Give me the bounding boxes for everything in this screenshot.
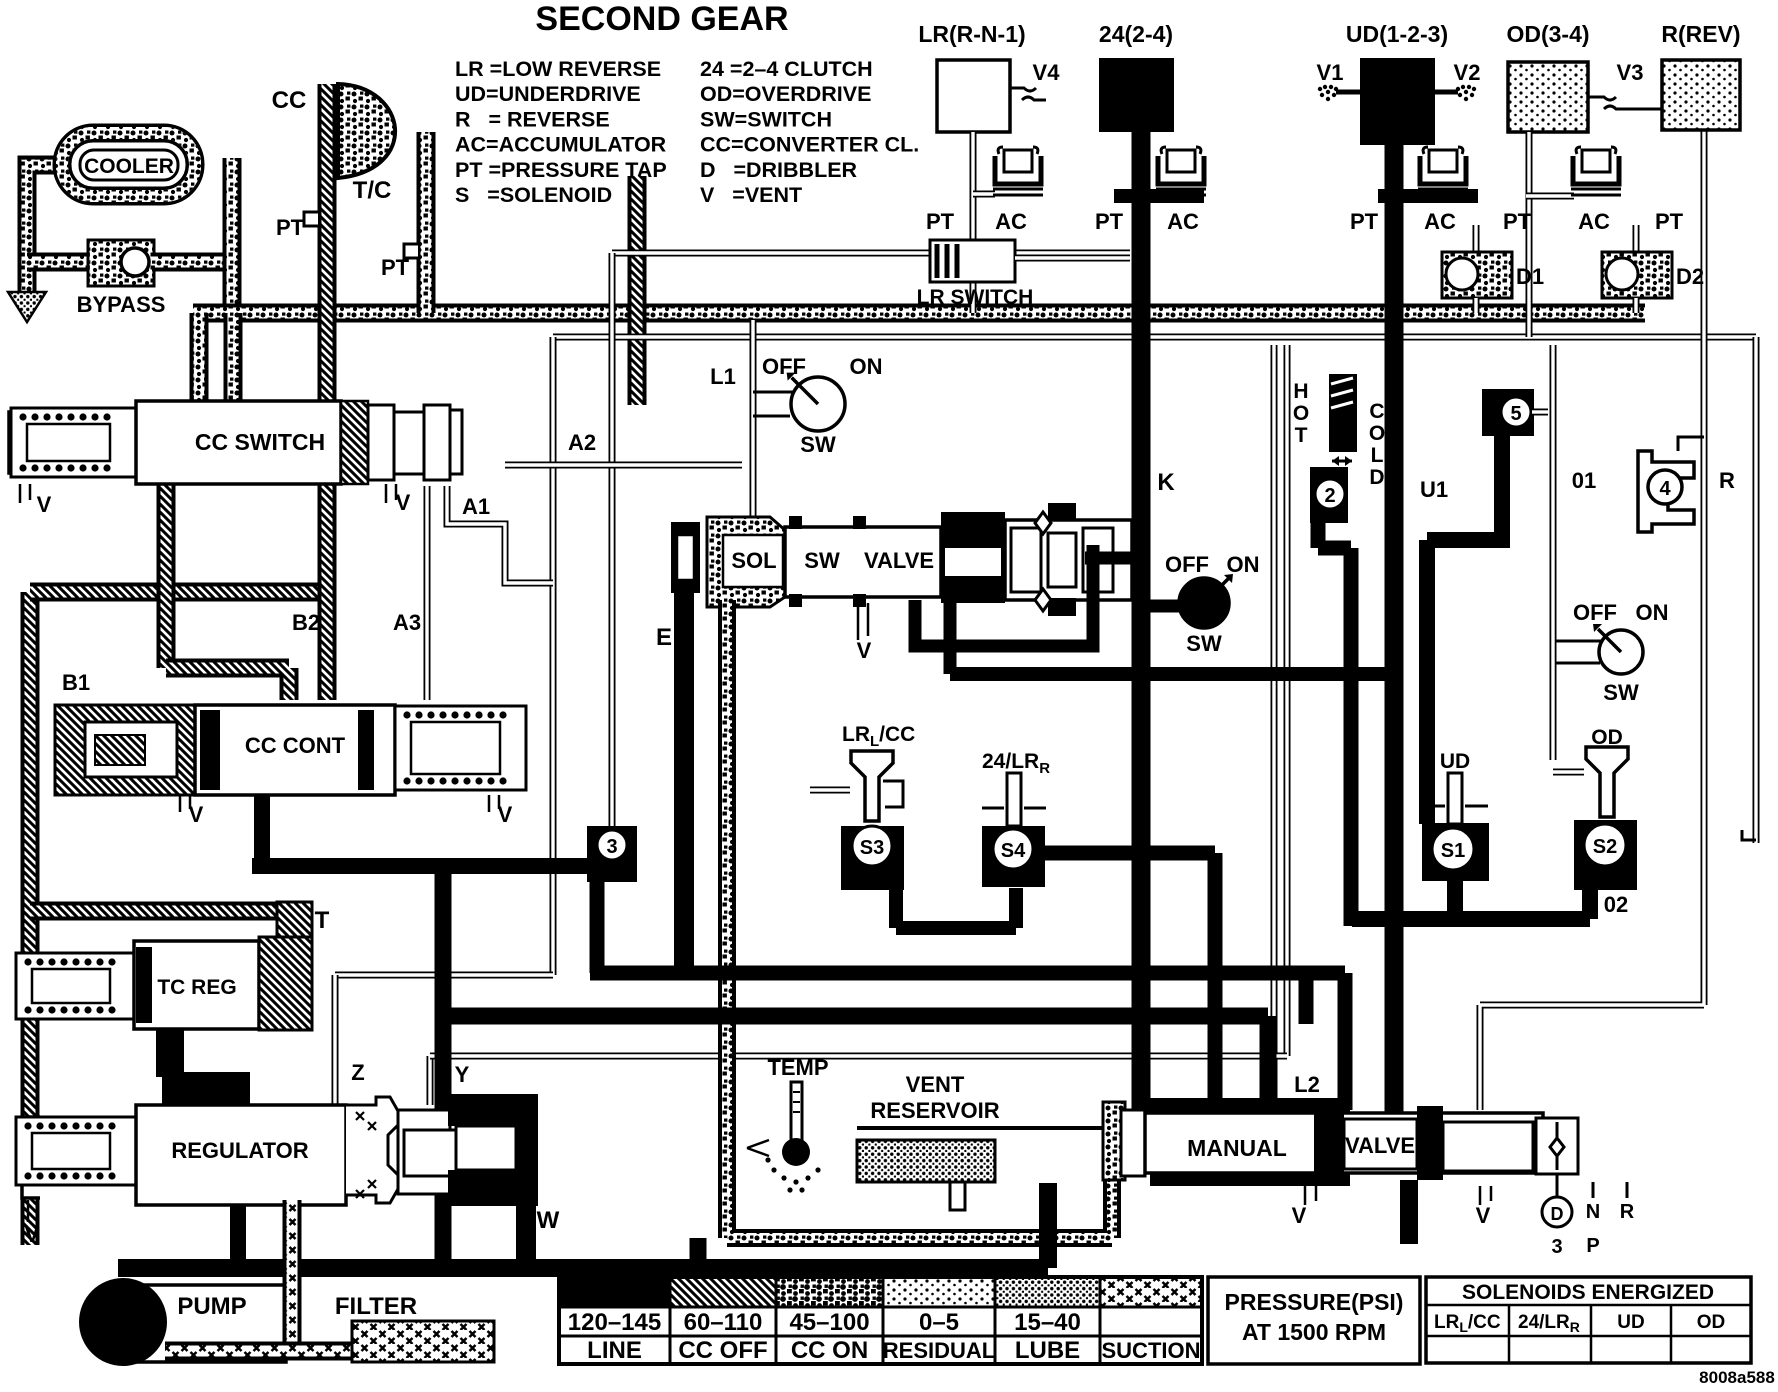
node 5 block bbox=[1482, 389, 1534, 436]
thermal element bbox=[1329, 374, 1357, 452]
valve MANUAL black section left of VALVE bbox=[1314, 1106, 1344, 1180]
svg-text:4: 4 bbox=[1659, 478, 1671, 500]
svg-text:Z: Z bbox=[351, 1060, 364, 1085]
valve REGULATOR black end bbox=[448, 1094, 536, 1126]
svg-text:LR SWITCH: LR SWITCH bbox=[917, 286, 1034, 309]
valve CC CONT spring box bbox=[395, 706, 526, 790]
svg-text:V: V bbox=[37, 492, 52, 517]
solenoid S4 bbox=[982, 826, 1045, 887]
legend swatch RESIDUAL bbox=[883, 1277, 995, 1307]
svg-text:C: C bbox=[1369, 400, 1384, 423]
svg-text:LRL/CC: LRL/CC bbox=[842, 723, 915, 750]
valve MANUAL end detent box bbox=[1536, 1118, 1578, 1174]
legend swatch LUBE bbox=[995, 1277, 1100, 1307]
svg-text:V: V bbox=[857, 638, 872, 663]
svg-text:15–40: 15–40 bbox=[1014, 1309, 1081, 1336]
svg-text:OD(3-4): OD(3-4) bbox=[1506, 21, 1589, 47]
wire S1 stem bbox=[1447, 877, 1463, 919]
wire 24 clutch feed vertical bbox=[1132, 130, 1151, 1113]
pressure tap PT on T/C line bbox=[404, 244, 418, 258]
valve body divider tabs bbox=[789, 516, 802, 529]
legend swatch CC ON bbox=[776, 1277, 883, 1307]
svg-text:OFF: OFF bbox=[762, 354, 806, 379]
svg-text:UD: UD bbox=[1440, 750, 1470, 773]
legend pressure table bbox=[559, 1277, 1202, 1364]
valve REGULATOR spool bbox=[398, 1110, 450, 1194]
vent V below MANUAL bbox=[1305, 1186, 1316, 1205]
svg-text:D: D bbox=[1369, 466, 1384, 489]
selector ticks N P R bbox=[1593, 1182, 1627, 1198]
wire vertical line x=553 bbox=[550, 337, 557, 975]
wire vent reservoir channel (stipple) bbox=[727, 600, 1112, 1238]
wire vent channel stub bbox=[690, 1238, 707, 1262]
svg-text:PT: PT bbox=[1095, 209, 1124, 234]
wire cooler loop into CC SWITCH right bbox=[224, 313, 243, 425]
svg-text:TEMP: TEMP bbox=[767, 1055, 828, 1080]
svg-text:V: V bbox=[25, 1222, 40, 1247]
wire TC REG link down bbox=[156, 1003, 184, 1077]
valve TC REG body bbox=[134, 941, 259, 1029]
solenoid switch valve stipple housing bbox=[707, 517, 785, 607]
valve CC CONT body bbox=[195, 705, 395, 795]
svg-text:D: D bbox=[1551, 1204, 1564, 1224]
wire W line bbox=[516, 1202, 536, 1262]
svg-text:REGULATOR: REGULATOR bbox=[171, 1138, 308, 1163]
valve MANUAL left cap bbox=[1121, 1110, 1145, 1176]
node 3 block bbox=[587, 826, 637, 882]
svg-text:D =DRIBBLER: D =DRIBBLER bbox=[700, 158, 858, 182]
svg-text:V: V bbox=[498, 802, 513, 827]
valve REGULATOR x-section bbox=[346, 1097, 398, 1203]
svg-text:AT 1500 RPM: AT 1500 RPM bbox=[1242, 1319, 1386, 1345]
wire B1 hatched far-left vertical bbox=[21, 911, 40, 1245]
valve MANUAL top black bar bbox=[1150, 1098, 1350, 1114]
svg-text:BYPASS: BYPASS bbox=[77, 292, 166, 317]
svg-text:PT: PT bbox=[276, 215, 305, 240]
valve MANUAL black section right of VALVE bbox=[1417, 1106, 1443, 1180]
wire cooler loop into CC SWITCH left bbox=[190, 313, 209, 425]
wire regulator feed bbox=[230, 1198, 246, 1268]
wire A2 line bbox=[505, 462, 742, 469]
svg-text:3: 3 bbox=[1551, 1236, 1562, 1258]
svg-text:VALVE: VALVE bbox=[1345, 1133, 1415, 1158]
svg-text:S4: S4 bbox=[1001, 840, 1026, 862]
svg-text:ON: ON bbox=[1227, 552, 1260, 577]
svg-text:VENT: VENT bbox=[906, 1072, 965, 1097]
vent V below CC SWITCH right bbox=[386, 484, 396, 503]
wire cooler to converter return vertical bbox=[223, 158, 242, 313]
svg-text:5: 5 bbox=[1510, 403, 1521, 425]
wire T/C charge (hatched) bbox=[628, 176, 647, 405]
svg-text:02: 02 bbox=[1604, 892, 1628, 917]
wire bypass to cooler return bbox=[152, 253, 232, 272]
svg-text:V =VENT: V =VENT bbox=[700, 183, 802, 207]
svg-text:0–5: 0–5 bbox=[919, 1309, 959, 1336]
wire S2 stem bbox=[1582, 888, 1598, 919]
svg-text:ON: ON bbox=[1636, 600, 1669, 625]
wire 5 to 01 line bbox=[1532, 409, 1548, 416]
svg-text:U1: U1 bbox=[1420, 477, 1448, 502]
wire L2 pair vertical bbox=[1271, 345, 1278, 1105]
wire thermal valve to UD sol supply bbox=[1318, 520, 1351, 548]
wire LR switch sense line y=253 bbox=[612, 250, 1130, 257]
solenoids energized table bbox=[1426, 1277, 1751, 1363]
wire valve to switch run y=674 bbox=[950, 667, 1394, 681]
switch SW1 dial bbox=[753, 392, 793, 416]
wire CC CONT output bbox=[252, 795, 614, 866]
spool top and bottom tabs bbox=[1048, 503, 1076, 521]
vent V below CC CONT left bbox=[180, 795, 190, 812]
svg-text:H: H bbox=[1293, 380, 1308, 403]
vent V below CC CONT right bbox=[489, 795, 499, 812]
svg-text:8008a588: 8008a588 bbox=[1699, 1368, 1775, 1387]
wire S4 output to manual bbox=[1045, 853, 1215, 1108]
wire vertical line x=612 to solenoid 3 bbox=[609, 253, 616, 826]
wire suction pipe bbox=[283, 1200, 302, 1345]
arrow both ways bbox=[1332, 460, 1352, 463]
svg-text:UD=UNDERDRIVE: UD=UNDERDRIVE bbox=[455, 82, 641, 106]
svg-text:N: N bbox=[1586, 1201, 1600, 1223]
valve TC REG spring box bbox=[16, 953, 136, 1019]
wire valve loop U2 bbox=[944, 603, 957, 674]
valve CC SWITCH body bbox=[136, 401, 341, 484]
cooler COOLER bbox=[62, 133, 195, 196]
wire A1 line bbox=[447, 486, 553, 583]
valve MANUAL stipple inlet cap bbox=[1103, 1102, 1125, 1180]
wire R reverse line bbox=[1480, 130, 1704, 1110]
wire Z line bbox=[335, 972, 553, 979]
wire right edge line x=1756 bbox=[1753, 337, 1760, 843]
svg-text:R: R bbox=[1620, 1201, 1635, 1223]
svg-text:A2: A2 bbox=[568, 430, 596, 455]
svg-text:AC: AC bbox=[1578, 209, 1610, 234]
svg-text:A1: A1 bbox=[462, 494, 490, 519]
svg-text:V3: V3 bbox=[1617, 60, 1644, 85]
pump rotor bbox=[79, 1278, 167, 1366]
svg-text:01: 01 bbox=[1572, 468, 1596, 493]
svg-text:UD(1-2-3): UD(1-2-3) bbox=[1346, 21, 1448, 47]
filter element bbox=[352, 1321, 494, 1362]
pressure switch LR SWITCH bbox=[930, 240, 1015, 282]
svg-text:D1: D1 bbox=[1516, 264, 1544, 289]
accumulator AC under UD bbox=[1378, 189, 1478, 203]
valve CC SWITCH hatched land bbox=[341, 401, 368, 484]
legend swatch CC OFF bbox=[670, 1277, 776, 1307]
solenoid switch valve spool section bbox=[1005, 520, 1132, 600]
svg-text:RESIDUAL: RESIDUAL bbox=[883, 1338, 995, 1363]
accumulator AC under LR bbox=[973, 191, 995, 198]
svg-text:VALVE: VALVE bbox=[864, 548, 934, 573]
svg-text:V: V bbox=[396, 490, 411, 515]
svg-text:R: R bbox=[1719, 468, 1735, 493]
legend swatch SUCTION bbox=[1100, 1277, 1202, 1307]
svg-text:E: E bbox=[656, 624, 672, 651]
svg-text:Y: Y bbox=[455, 1062, 470, 1087]
detent D marker bbox=[1556, 1174, 1559, 1196]
wire hatched elbow to CC CONT bbox=[166, 668, 289, 700]
pressure tap PT on CC line bbox=[304, 212, 318, 226]
pump body bbox=[121, 1285, 286, 1362]
valve REGULATOR spring box bbox=[16, 1117, 136, 1185]
svg-text:T: T bbox=[315, 907, 330, 934]
valve CC CONT black land left bbox=[200, 710, 220, 790]
svg-text:B2: B2 bbox=[292, 610, 320, 635]
svg-text:SW=SWITCH: SW=SWITCH bbox=[700, 107, 832, 131]
svg-text:V: V bbox=[1476, 1203, 1491, 1228]
wire TC REG hatched feed bbox=[30, 902, 300, 921]
svg-text:OFF: OFF bbox=[1573, 600, 1617, 625]
svg-text:S3: S3 bbox=[860, 837, 884, 859]
svg-text:S1: S1 bbox=[1441, 840, 1465, 862]
svg-text:L: L bbox=[1371, 444, 1384, 467]
solenoid switch valve black section bbox=[941, 512, 1005, 603]
solenoid switch valve body SW VALVE bbox=[785, 527, 941, 597]
bypass valve body bbox=[88, 240, 154, 286]
valve MANUAL body bbox=[1145, 1113, 1543, 1173]
svg-text:T: T bbox=[1295, 424, 1308, 447]
svg-text:CC: CC bbox=[272, 87, 307, 114]
wire A3 line bbox=[424, 486, 431, 700]
svg-text:COOLER: COOLER bbox=[84, 155, 174, 178]
svg-text:PT: PT bbox=[1350, 209, 1379, 234]
bypass ball bbox=[121, 248, 149, 276]
wire valve loop U1 bbox=[915, 545, 1093, 646]
switch SW2 dial (closed) bbox=[1179, 578, 1229, 628]
svg-text:FILTER: FILTER bbox=[335, 1293, 417, 1320]
node 2 block bbox=[1310, 467, 1348, 523]
valve CC SWITCH left end cap bbox=[9, 412, 34, 473]
valve CC SWITCH right end A1 port bbox=[450, 410, 462, 474]
node 4 retainer bbox=[1678, 437, 1704, 451]
wire B1 hatched horizontal bbox=[30, 583, 327, 602]
svg-text:V: V bbox=[1292, 1203, 1307, 1228]
wire UD clutch feed vertical bbox=[1385, 130, 1404, 1113]
hook end of x=1756 line bbox=[1742, 830, 1756, 840]
accumulator AC under OD bbox=[1526, 193, 1574, 200]
svg-text:SW: SW bbox=[800, 432, 836, 457]
svg-text:SOL: SOL bbox=[731, 548, 776, 573]
svg-text:SECOND GEAR: SECOND GEAR bbox=[535, 0, 788, 38]
svg-text:V2: V2 bbox=[1454, 60, 1481, 85]
svg-text:LR(R-N-1): LR(R-N-1) bbox=[918, 21, 1025, 47]
dribbler D2 bbox=[1602, 252, 1672, 298]
svg-text:LUBE: LUBE bbox=[1015, 1337, 1080, 1364]
vent V below left cap bbox=[20, 484, 30, 503]
svg-text:R(REV): R(REV) bbox=[1661, 21, 1740, 47]
svg-text:LR =LOW REVERSE: LR =LOW REVERSE bbox=[455, 57, 661, 81]
wire run2 solenoid feed bbox=[590, 878, 1345, 1110]
wire D1 feed bbox=[1473, 225, 1480, 252]
svg-text:OFF: OFF bbox=[1165, 552, 1209, 577]
solenoid S1 bbox=[1422, 823, 1489, 881]
valve REGULATOR body bbox=[136, 1105, 346, 1205]
svg-text:60–110: 60–110 bbox=[684, 1309, 763, 1336]
svg-text:V4: V4 bbox=[1033, 60, 1061, 85]
svg-text:CC OFF: CC OFF bbox=[678, 1337, 767, 1364]
valve CC SWITCH spring box bbox=[11, 408, 136, 477]
wire L1 drop bbox=[750, 320, 757, 560]
wire E line bbox=[674, 593, 694, 966]
svg-text:PRESSURE(PSI): PRESSURE(PSI) bbox=[1225, 1289, 1404, 1315]
wire run3 pump to manual bbox=[443, 1016, 1268, 1110]
svg-text:O: O bbox=[1293, 402, 1309, 425]
wire UD solenoid supply vertical bbox=[1344, 548, 1359, 926]
svg-text:AC=ACCUMULATOR: AC=ACCUMULATOR bbox=[455, 133, 667, 157]
svg-text:CC SWITCH: CC SWITCH bbox=[195, 429, 325, 455]
svg-text:P: P bbox=[1586, 1235, 1599, 1257]
svg-text:CC ON: CC ON bbox=[791, 1337, 868, 1364]
wire bypass branch bbox=[27, 253, 90, 272]
wire main feed vertical x=443 bbox=[435, 866, 452, 1268]
svg-text:LRL/CC: LRL/CC bbox=[1434, 1312, 1501, 1335]
solenoid switch valve left cap E bbox=[671, 522, 700, 593]
svg-text:SW: SW bbox=[1603, 680, 1639, 705]
svg-text:OD: OD bbox=[1697, 1312, 1726, 1333]
wire S3 S4 connector run1 bbox=[896, 885, 1016, 928]
legend swatch LINE bbox=[559, 1277, 670, 1307]
wire hatched CC SWITCH drop 1 bbox=[157, 480, 176, 668]
svg-text:S2: S2 bbox=[1593, 836, 1617, 858]
svg-text:V: V bbox=[189, 802, 204, 827]
svg-text:SW: SW bbox=[804, 548, 840, 573]
svg-text:3: 3 bbox=[606, 836, 617, 858]
svg-text:SW: SW bbox=[1186, 631, 1222, 656]
wire B2 hatched line bbox=[318, 480, 337, 700]
svg-text:R = REVERSE: R = REVERSE bbox=[455, 107, 610, 131]
arrow cooler discharge bbox=[8, 292, 46, 322]
legend text column 1 bbox=[455, 57, 667, 207]
svg-text:L1: L1 bbox=[710, 364, 736, 389]
svg-text:V1: V1 bbox=[1317, 60, 1344, 85]
legend text column 2 bbox=[700, 57, 919, 207]
wire valve right to 24 line bbox=[1085, 552, 1141, 565]
valve CC CONT left hatched box bbox=[55, 705, 195, 795]
svg-text:AC: AC bbox=[995, 209, 1027, 234]
torque converter T/C dome bbox=[338, 84, 395, 178]
svg-text:W: W bbox=[537, 1207, 560, 1234]
svg-text:UD: UD bbox=[1617, 1312, 1644, 1333]
valve CC SWITCH spool lands bbox=[368, 405, 394, 480]
wire LR stem bbox=[970, 132, 977, 242]
wire converter-out main stipple run bbox=[193, 304, 1645, 323]
svg-text:SUCTION: SUCTION bbox=[1102, 1338, 1201, 1363]
svg-text:24 =2–4 CLUTCH: 24 =2–4 CLUTCH bbox=[700, 57, 873, 81]
svg-text:B1: B1 bbox=[62, 670, 90, 695]
valve VALVE label box bbox=[1344, 1119, 1417, 1169]
wire 5 block leg bbox=[1427, 435, 1510, 824]
svg-text:LINE: LINE bbox=[587, 1337, 642, 1364]
wire drain below valve bbox=[1400, 1180, 1418, 1244]
wire into S3 funnel bbox=[810, 787, 850, 794]
svg-text:24(2-4): 24(2-4) bbox=[1099, 21, 1173, 47]
pressure note box bbox=[1208, 1277, 1420, 1364]
svg-text:ON: ON bbox=[850, 354, 883, 379]
solenoid S2 bbox=[1574, 820, 1637, 890]
wire CC apply (hatched) bbox=[318, 84, 337, 405]
check ball diamonds bbox=[1035, 512, 1051, 611]
svg-text:PUMP: PUMP bbox=[177, 1293, 246, 1320]
svg-text:45–100: 45–100 bbox=[789, 1309, 869, 1336]
svg-text:PT: PT bbox=[381, 255, 410, 280]
wire T/C right side drain bbox=[417, 132, 436, 313]
svg-text:TC REG: TC REG bbox=[157, 976, 236, 999]
svg-text:AC: AC bbox=[1167, 209, 1199, 234]
svg-text:RESERVOIR: RESERVOIR bbox=[870, 1098, 999, 1123]
wire cooler outlet left + arrow bbox=[27, 165, 62, 292]
svg-text:MANUAL: MANUAL bbox=[1187, 1135, 1287, 1161]
valve MANUAL right spool bbox=[1443, 1122, 1533, 1171]
accumulator AC under 24 bbox=[1114, 189, 1204, 203]
svg-text:S =SOLENOID: S =SOLENOID bbox=[455, 183, 612, 207]
solenoid S3 bbox=[841, 826, 904, 890]
wire D2 feed bbox=[1633, 225, 1640, 252]
svg-text:AC: AC bbox=[1424, 209, 1456, 234]
wire 01 line bbox=[1550, 345, 1557, 760]
svg-text:K: K bbox=[1157, 469, 1175, 496]
svg-text:PT: PT bbox=[926, 209, 955, 234]
svg-text:SOLENOIDS ENERGIZED: SOLENOIDS ENERGIZED bbox=[1462, 1281, 1714, 1304]
svg-text:T/C: T/C bbox=[353, 177, 392, 204]
wire S1 S2 collector bbox=[1352, 911, 1590, 927]
svg-text:120–145: 120–145 bbox=[568, 1309, 661, 1336]
wire torque signal line y=337 bbox=[553, 334, 1756, 341]
svg-text:O: O bbox=[1369, 422, 1385, 445]
svg-text:CC=CONVERTER CL.: CC=CONVERTER CL. bbox=[700, 133, 919, 157]
valve REGULATOR left cap bbox=[22, 1117, 40, 1198]
dribbler D1 bbox=[1442, 252, 1512, 298]
svg-text:L2: L2 bbox=[1294, 1072, 1320, 1097]
valve TC REG hatched cap bbox=[259, 937, 312, 1030]
wire 01 to OD funnel bbox=[1553, 769, 1584, 776]
svg-text:2: 2 bbox=[1324, 485, 1335, 507]
vent V below valve bbox=[858, 603, 868, 640]
svg-text:A3: A3 bbox=[393, 610, 421, 635]
svg-text:PT: PT bbox=[1503, 209, 1532, 234]
wire SW2 link bbox=[1148, 600, 1182, 613]
switch SW3 dial bbox=[1553, 641, 1601, 663]
svg-text:D2: D2 bbox=[1676, 264, 1704, 289]
wire Y line bbox=[427, 1056, 434, 1105]
svg-text:OD=OVERDRIVE: OD=OVERDRIVE bbox=[700, 82, 871, 106]
wire pump discharge bbox=[118, 1183, 1048, 1268]
valve CC CONT black land right bbox=[358, 710, 374, 790]
svg-text:CC CONT: CC CONT bbox=[245, 733, 346, 758]
wire OD stem bbox=[1526, 132, 1533, 337]
svg-text:PT: PT bbox=[1655, 209, 1684, 234]
